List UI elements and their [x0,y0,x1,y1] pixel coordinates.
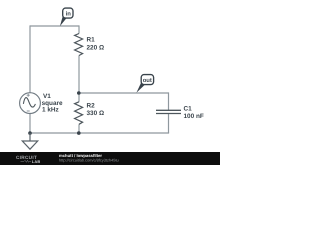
svg-text:1 kHz: 1 kHz [42,107,59,114]
wire V1 bottom lead [29,113,31,133]
svg-text:LAB: LAB [32,159,41,164]
voltage source V1 [20,93,41,114]
ground symbol [22,133,37,149]
resistor R1 [75,34,83,56]
svg-text:V1: V1 [43,93,51,100]
svg-text:out: out [143,78,152,84]
label V1 value [42,93,63,114]
svg-text:R1: R1 [87,36,96,43]
watermark bar [0,152,220,165]
svg-text:100 nF: 100 nF [184,113,204,120]
svg-text:http://circuitlab.com/c/8fcy3t: http://circuitlab.com/c/8fcy3tzh45tu [59,157,119,162]
capacitor C1 [156,110,181,113]
wire left vertical V1 top [29,25,31,92]
watermark logo squiggle [21,160,32,162]
wire bottom horizontal ground rail [30,132,169,134]
wire node out horizontal to C1 [79,92,169,94]
wire R2 bottom lead [78,124,80,133]
label C1 [184,105,204,120]
wire R1 top lead [78,25,80,33]
node junction dot out (R1/R2/C1) [77,91,81,95]
flag in [60,8,73,26]
svg-text:330 Ω: 330 Ω [87,110,105,117]
svg-text:in: in [66,10,72,17]
wire R1 bottom lead to node out [78,56,80,94]
wire R2 top lead [78,93,80,102]
resistor R2 [75,102,83,125]
svg-text:C1: C1 [184,105,193,112]
wire top horizontal from V1 to R1 [30,25,79,27]
svg-text:220 Ω: 220 Ω [87,44,105,51]
wire C1 bottom lead [168,114,170,134]
svg-text:R2: R2 [87,103,96,110]
wire C1 top lead [168,92,170,110]
label R2 [87,103,105,117]
label R1 [87,36,105,51]
node junction dot ground rail at V1 [28,131,32,135]
flag out [136,75,153,93]
node junction dot ground rail at R2 [77,131,81,135]
